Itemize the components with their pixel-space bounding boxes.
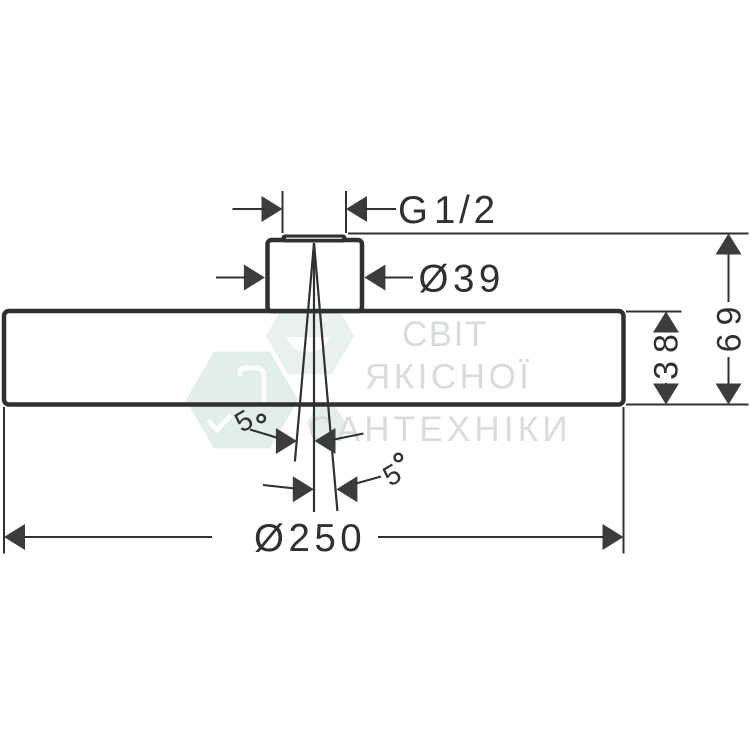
angle5 upper leader right (334, 434, 364, 440)
D39 tail left (216, 277, 246, 279)
G1/2 extension line right (345, 191, 347, 233)
D39 arrow right (364, 265, 385, 291)
D250 extension line right (623, 407, 625, 554)
svg-text:СВІТ: СВІТ (402, 315, 488, 354)
angle5 upper leader left (250, 430, 278, 439)
watermark hook glyph (240, 368, 264, 403)
svg-text:ЯКІСНОЇ: ЯКІСНОЇ (365, 358, 532, 397)
dim69 arrow down (716, 384, 742, 405)
spray centerline (313, 243, 315, 512)
watermark hexagon big (186, 352, 298, 449)
dim69 extension line top (348, 233, 749, 235)
svg-text:САНТЕХНІКИ: САНТЕХНІКИ (308, 410, 572, 449)
dim38 arrow up (653, 312, 679, 333)
svg-text:69: 69 (711, 299, 749, 353)
angle5 lower degree ring (395, 454, 403, 462)
connector block (268, 240, 363, 311)
shower plate body (4, 311, 624, 405)
dim69 arrow up (716, 234, 742, 255)
angle5 upper arrow left (276, 428, 297, 454)
D250 arrow left (4, 524, 25, 550)
G1/2 tail left (233, 208, 265, 210)
D250 extension line left (3, 407, 5, 554)
thread cap inner line (286, 237, 342, 239)
D250 arrow right (603, 524, 624, 550)
D250 line left segment (23, 536, 212, 538)
D39 arrow left (244, 265, 265, 291)
spray line left 5deg (295, 243, 314, 462)
D39 tail right (383, 277, 413, 279)
angle5 lower leader right (356, 477, 381, 484)
spray line right 5deg (314, 243, 337, 511)
G1/2 extension line left (282, 191, 284, 233)
D250 line right segment (378, 536, 604, 538)
angle5 upper degree ring (257, 415, 265, 423)
angle5 lower arrow left (293, 476, 314, 502)
dim38 line top segment (665, 313, 667, 331)
G1/2 tail right (365, 208, 397, 210)
watermark check glyph (208, 415, 231, 430)
svg-text:38: 38 (648, 326, 686, 380)
angle5 lower arrow right (336, 476, 357, 502)
watermark hexagon small (307, 407, 346, 441)
dim69 line top segment (728, 235, 730, 302)
watermark bowl glyph (286, 337, 330, 352)
svg-text:Ø250: Ø250 (254, 517, 366, 560)
watermark hexagon medium (266, 298, 354, 374)
G1/2 arrow left (262, 196, 283, 222)
angle5 upper arrow right (315, 428, 336, 454)
dim38 arrow down (653, 384, 679, 405)
dim38 extension line top (626, 311, 682, 313)
thread cap (282, 235, 347, 243)
G1/2 arrow right (346, 196, 367, 222)
dim38 line bottom segment (665, 383, 667, 403)
angle5 lower leader left (263, 485, 295, 489)
dim69 line bottom segment (728, 357, 730, 403)
svg-text:Ø39: Ø39 (419, 258, 505, 301)
svg-text:1/2: 1/2 (434, 189, 499, 232)
svg-text:G: G (398, 189, 428, 232)
dim69 extension line bottom (626, 404, 749, 406)
